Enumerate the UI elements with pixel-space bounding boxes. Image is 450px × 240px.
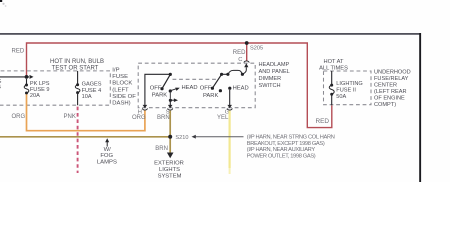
svg-text:LIGHTING: LIGHTING bbox=[336, 81, 362, 87]
fuse F4 (GAGES FUSE 4 10A) bbox=[77, 71, 79, 85]
svg-text:PK LPS: PK LPS bbox=[30, 81, 50, 87]
svg-text:(LEFT: (LEFT bbox=[112, 87, 129, 93]
svg-text:BRN: BRN bbox=[155, 146, 168, 152]
node with arrow into fuse 9 bbox=[0, 76, 29, 78]
pole 2 HEAD contact bbox=[228, 87, 231, 90]
fuse F9 (PK LPS FUSE 9 20A) bbox=[26, 79, 28, 84]
wire BRN horizontal to S210 bbox=[0, 136, 170, 138]
switch pole 1 feed wire from H bbox=[145, 74, 170, 105]
svg-text:50A: 50A bbox=[336, 94, 346, 100]
svg-text:YEL: YEL bbox=[217, 115, 229, 121]
svg-text:DASH): DASH) bbox=[112, 101, 130, 107]
svg-text:BLOCK: BLOCK bbox=[112, 81, 132, 87]
terminal S bbox=[168, 105, 173, 108]
svg-text:DIMMER: DIMMER bbox=[259, 76, 282, 82]
svg-text:(I/P HARN, NEAR AUXILIARY: (I/P HARN, NEAR AUXILIARY bbox=[247, 147, 316, 153]
svg-text:BREAKOUT, EXCEPT 1998 GAS): BREAKOUT, EXCEPT 1998 GAS) bbox=[247, 141, 325, 147]
svg-text:PARK: PARK bbox=[203, 93, 218, 99]
arrow to EXTERIOR LIGHTS SYSTEM bbox=[167, 153, 174, 159]
svg-text:FUSE: FUSE bbox=[112, 74, 128, 80]
svg-text:OFF: OFF bbox=[150, 86, 162, 92]
svg-text:OF ENGINE: OF ENGINE bbox=[374, 95, 405, 101]
frame vertical rule bbox=[419, 33, 421, 182]
wire PNK dashed below fuse 4 bbox=[77, 107, 79, 173]
svg-text:W/: W/ bbox=[104, 147, 112, 153]
terminal C bbox=[244, 61, 249, 63]
fog lamp tap arrow bbox=[106, 141, 108, 147]
svg-text:RED: RED bbox=[233, 50, 246, 56]
svg-text:SWITCH: SWITCH bbox=[259, 83, 281, 89]
splice S210 bbox=[168, 135, 172, 139]
svg-text:S210: S210 bbox=[175, 135, 188, 141]
svg-text:10A: 10A bbox=[82, 94, 92, 100]
pole 2 PARK contact bbox=[219, 89, 222, 92]
pole 1 arrow at S junction bbox=[172, 99, 174, 101]
svg-text:HEAD: HEAD bbox=[182, 85, 198, 91]
svg-text:S205: S205 bbox=[250, 45, 263, 51]
svg-text:FOG: FOG bbox=[100, 153, 113, 159]
wire RED drop to C bbox=[246, 43, 248, 61]
svg-text:(LEFT REAR: (LEFT REAR bbox=[374, 89, 407, 95]
svg-text:BRN: BRN bbox=[157, 115, 170, 121]
svg-text:FUSE/RELAY: FUSE/RELAY bbox=[374, 76, 409, 82]
fuse LIGHTING FUSE II 50A bbox=[331, 71, 333, 85]
svg-text:HOT IN RUN, BULB: HOT IN RUN, BULB bbox=[50, 59, 104, 65]
svg-text:SYSTEM: SYSTEM bbox=[158, 174, 182, 180]
headlamp switch dashed box bbox=[138, 63, 255, 107]
svg-text:SIDE OF: SIDE OF bbox=[112, 94, 136, 100]
corner scribble bbox=[0, 0, 2, 2]
svg-text:LIGHTS: LIGHTS bbox=[159, 167, 180, 173]
S210 leader line bbox=[196, 136, 244, 138]
svg-text:HOT AT: HOT AT bbox=[323, 59, 344, 65]
mechanical link dashed bbox=[173, 78, 217, 80]
pole 1 link down to S junction bbox=[169, 93, 171, 99]
wire YEL from G bbox=[229, 111, 231, 168]
svg-text:COMPT): COMPT) bbox=[374, 102, 396, 108]
I/P fuse block dashed box bbox=[0, 71, 110, 105]
pole 2 drop to G terminal bbox=[229, 90, 231, 106]
underhood fuse/relay center dashed box bbox=[324, 71, 372, 105]
pole 1 pivot bbox=[169, 73, 172, 76]
svg-text:C: C bbox=[238, 57, 242, 63]
pole 1 PARK contact bbox=[169, 89, 172, 92]
pole 2 arm bbox=[212, 74, 221, 88]
svg-text:RED: RED bbox=[12, 49, 25, 55]
svg-text:PARK: PARK bbox=[152, 93, 167, 99]
terminal H bbox=[143, 105, 148, 108]
svg-text:AND PANEL: AND PANEL bbox=[259, 69, 290, 75]
svg-text:GAGES: GAGES bbox=[82, 82, 102, 88]
wire RED bus bbox=[27, 43, 332, 128]
svg-text:20A: 20A bbox=[30, 93, 40, 99]
pole 1 arm to OFF bbox=[162, 74, 170, 88]
svg-text:HEADLAMP: HEADLAMP bbox=[259, 62, 290, 68]
pole 1 drop to S terminal bbox=[169, 100, 171, 105]
switch pole 2 OFF contact bbox=[211, 87, 214, 90]
svg-text:POWER OUTLET, 1998 GAS): POWER OUTLET, 1998 GAS) bbox=[247, 154, 316, 160]
wire ORG from fuse 9 to switch H bbox=[27, 94, 145, 130]
svg-text:HEAD: HEAD bbox=[233, 85, 249, 91]
svg-text:ORG: ORG bbox=[12, 114, 26, 120]
svg-text:UNDERHOOD: UNDERHOOD bbox=[374, 69, 411, 75]
svg-text:LAMPS: LAMPS bbox=[97, 159, 117, 165]
svg-text:ORG: ORG bbox=[132, 115, 146, 121]
wire BRN from S down through S210 bbox=[169, 111, 171, 153]
svg-text:EXTERIOR: EXTERIOR bbox=[154, 160, 184, 166]
terminal G bbox=[227, 105, 232, 108]
svg-text:PNK: PNK bbox=[64, 114, 76, 120]
pole 2 riser to C bbox=[242, 67, 246, 74]
svg-text:FUSE II: FUSE II bbox=[336, 88, 356, 94]
svg-text:I/P: I/P bbox=[112, 68, 119, 74]
splice S205 bbox=[245, 41, 249, 45]
svg-text:(I/P HARN, NEAR STRNG COL HARN: (I/P HARN, NEAR STRNG COL HARN bbox=[247, 134, 335, 140]
pole 2 wiper bridge bbox=[222, 73, 228, 75]
pole 1 arrow to HEAD bbox=[172, 89, 177, 91]
svg-text:CENTER: CENTER bbox=[374, 82, 397, 88]
frame horizontal rule bbox=[0, 33, 421, 35]
svg-text:OFF: OFF bbox=[200, 85, 212, 91]
svg-text:RED: RED bbox=[316, 118, 330, 125]
